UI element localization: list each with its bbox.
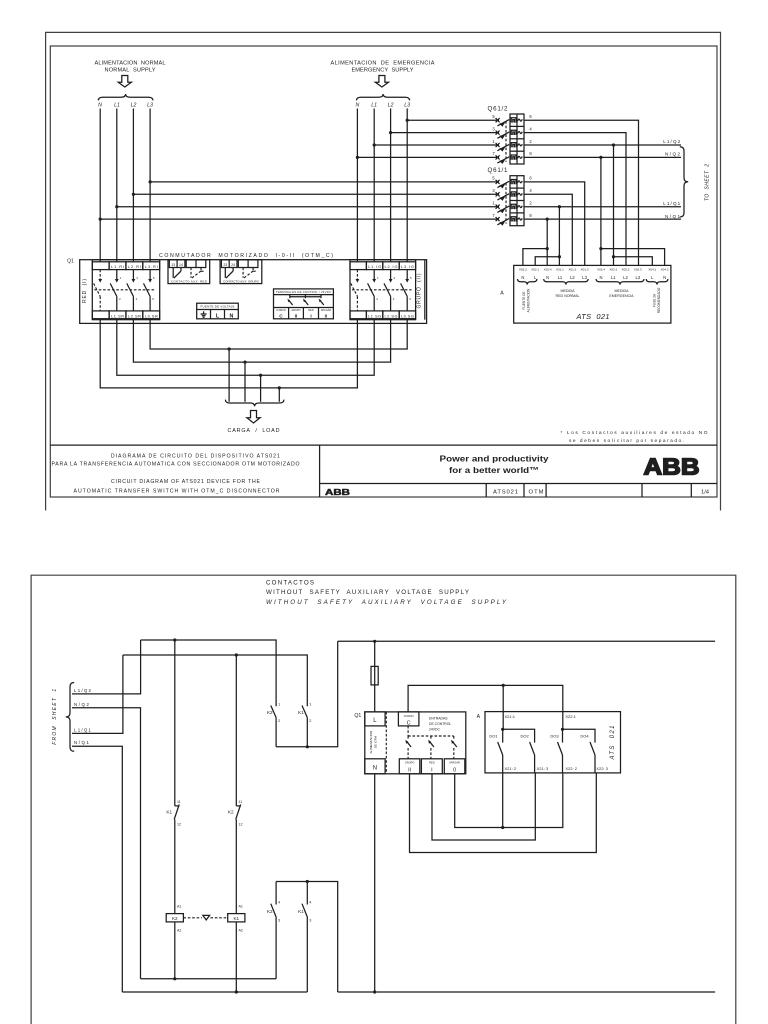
wire C feed common	[408, 685, 563, 712]
svg-text:se deben solicitar por separad: se deben solicitar por separado.	[569, 438, 684, 444]
normal supply brace	[98, 94, 153, 100]
svg-text:DE CONTROL: DE CONTROL	[429, 722, 451, 726]
svg-text:FUSE 2A: FUSE 2A	[652, 293, 656, 307]
wire N.SR to N.SG	[100, 319, 357, 388]
junction coil K1 rail	[235, 990, 238, 993]
load arrow	[247, 411, 260, 424]
title block frame	[50, 445, 717, 497]
svg-text:X01:4: X01:4	[544, 267, 552, 271]
coil K2	[166, 905, 183, 933]
rail N common	[338, 991, 715, 993]
svg-text:X02:1: X02:1	[609, 267, 617, 271]
svg-text:K1: K1	[233, 916, 239, 921]
normal supply arrow	[118, 76, 131, 88]
aux contact block 13-14	[168, 260, 210, 284]
svg-text:ALIMENTACION DE EMERGENCIA: ALIMENTACION DE EMERGENCIA	[331, 61, 435, 67]
svg-text:II: II	[408, 768, 411, 774]
junction L2-Q61/1	[132, 193, 135, 196]
svg-text:L3.IG: L3.IG	[401, 264, 414, 269]
wire Q61/1 pin2 node L1/Q1	[524, 206, 681, 208]
emergency supply label	[331, 61, 435, 74]
svg-text:FUENTE DE: FUENTE DE	[522, 291, 526, 309]
wire bus2 to K2 NC	[235, 655, 237, 806]
wire Q61/2 pin6 to X terminal	[524, 120, 639, 265]
wire Q1 N down	[374, 774, 376, 992]
section divider GRUPO	[424, 260, 426, 320]
normal supply label	[95, 61, 166, 74]
wire N emergency	[356, 109, 358, 262]
wire L2 emergency	[390, 109, 392, 262]
phase labels emergency supply	[356, 103, 411, 109]
svg-text:24VDC: 24VDC	[429, 727, 440, 731]
svg-text:AUTOMATIC TRANSFER SWITCH WITH: AUTOMATIC TRANSFER SWITCH WITH OTM_C DIS…	[74, 489, 280, 495]
junction L3-Q61/2	[406, 119, 409, 122]
svg-text:ENTRADAS: ENTRADAS	[429, 716, 448, 720]
wire L1 to Q61/2 pin1	[374, 144, 499, 146]
wire L1/Q2 feed	[72, 640, 141, 694]
junction jog L1/Q1	[558, 255, 561, 258]
svg-text:L1.SG: L1.SG	[368, 313, 381, 318]
junction L1/Q1 branch	[558, 205, 561, 208]
rail N/Q1	[122, 991, 307, 993]
wire jog N/Q1 to X02:2	[523, 249, 547, 266]
svg-text:RED (I): RED (I)	[82, 279, 88, 303]
svg-text:Q1: Q1	[67, 259, 74, 265]
slogan	[440, 454, 549, 475]
fuse F1	[371, 666, 378, 685]
brace to sheet 2	[680, 147, 688, 217]
wire coil K1 to rail	[235, 922, 237, 992]
svg-text:GRUPO (II): GRUPO (II)	[416, 273, 422, 308]
wire DO3 bus	[563, 729, 596, 742]
junction DO3 bus	[561, 728, 564, 731]
wire N/Q1 branch down	[546, 219, 548, 265]
svg-text:L1: L1	[114, 103, 120, 109]
wire X21:1 drop	[502, 685, 504, 729]
wire aux common rail	[276, 641, 338, 747]
svg-text:L3: L3	[582, 275, 587, 280]
svg-text:N: N	[373, 765, 377, 771]
junction N-Q61/1	[99, 218, 102, 221]
wire L1 to Q61/1 pin1	[117, 206, 499, 208]
svg-text:L2.IG: L2.IG	[385, 264, 398, 269]
load tap L3	[228, 349, 230, 402]
junction Q1 N rail	[373, 990, 376, 993]
svg-text:X02:2: X02:2	[519, 267, 527, 271]
svg-text:CONTACTOS: CONTACTOS	[266, 580, 314, 587]
junction L1/Q2 branch	[612, 143, 615, 146]
terminal block FUENTE DE VOLTAJE	[197, 303, 239, 319]
phase labels normal supply	[98, 103, 153, 109]
svg-text:DIAGRAMA DE CIRCUITO DEL DISPO: DIAGRAMA DE CIRCUITO DEL DISPOSITIVO ATS…	[111, 454, 280, 460]
svg-text:C: C	[279, 314, 283, 320]
wire K2 aux bottom	[275, 718, 277, 747]
junction jog N/Q2	[599, 247, 602, 250]
coil K1	[228, 905, 245, 933]
svg-text:X22:1: X22:1	[565, 714, 576, 719]
wire Q61/1 pin6 to X terminal	[524, 182, 585, 266]
wire L1.SR to L1.SG	[117, 319, 374, 375]
page 2 heading	[266, 580, 507, 606]
svg-text:2: 2	[309, 719, 311, 723]
svg-text:L1: L1	[558, 275, 563, 280]
wire L1/Q1 feed	[72, 655, 123, 733]
wire K2-NO bottom	[275, 917, 277, 979]
wire Q61/2 pin2 node L1/Q2	[524, 144, 681, 146]
svg-text:N: N	[98, 103, 102, 109]
wire jog L1/Q2 to X04:1	[614, 257, 653, 266]
svg-text:A2: A2	[177, 928, 181, 932]
svg-text:FUENTE DE VOLTAJE: FUENTE DE VOLTAJE	[201, 305, 235, 309]
junction N/Q2 branch	[599, 156, 602, 159]
svg-text:L1.IG: L1.IG	[368, 264, 381, 269]
svg-text:1: 1	[278, 703, 280, 707]
svg-text:DE OTM: DE OTM	[374, 736, 378, 748]
svg-text:L1.RI: L1.RI	[111, 264, 124, 269]
svg-text:N: N	[599, 275, 602, 280]
contact K2 aux 1-2	[267, 703, 280, 724]
wire L2 to Q61/2 pin3	[391, 132, 499, 134]
junction fuse tap	[373, 640, 376, 643]
svg-text:X21: 3: X21: 3	[537, 766, 549, 771]
title text spanish	[52, 454, 300, 468]
wire K1 NC to coil K2	[174, 819, 176, 913]
wire N/Q2 feed	[72, 708, 141, 979]
svg-text:X21:1: X21:1	[505, 714, 516, 719]
svg-text:COMUN: COMUN	[276, 309, 286, 312]
svg-text:ATS 021: ATS 021	[576, 312, 610, 321]
svg-text:ALIMENTACION: ALIMENTACION	[527, 288, 531, 312]
junction load L2	[243, 361, 246, 364]
emergency supply brace	[357, 94, 410, 100]
svg-text:MEDIDA: MEDIDA	[561, 289, 576, 293]
junction DO1 bus	[501, 728, 504, 731]
wire L2 to Q61/1 pin3	[133, 193, 499, 195]
wire coil K2 to rail	[174, 922, 176, 979]
svg-text:ALIMENTACION: ALIMENTACION	[369, 731, 373, 754]
page 1 sheet outer border	[46, 32, 721, 510]
svg-text:K2: K2	[172, 916, 178, 921]
svg-text:L1: L1	[611, 275, 616, 280]
doc number	[493, 490, 544, 496]
svg-text:L3: L3	[404, 103, 410, 109]
wire K2-NO top	[275, 882, 277, 905]
svg-text:N/Q2: N/Q2	[665, 152, 680, 157]
controller A ATS021 p2	[485, 712, 621, 773]
wire L3 normal	[149, 109, 151, 262]
svg-text:L2: L2	[388, 103, 394, 109]
svg-text:L2.RI: L2.RI	[128, 264, 141, 269]
svg-text:RED: RED	[429, 761, 435, 765]
aux contact block 23-24	[220, 260, 262, 284]
wire X21:3 to input I	[432, 773, 535, 840]
svg-text:24: 24	[231, 263, 235, 267]
wire Q61/2 pin4 to X terminal	[524, 133, 626, 266]
svg-text:CONTACTO AUX. GRUPO: CONTACTO AUX. GRUPO	[223, 279, 260, 283]
svg-text:K2: K2	[228, 809, 234, 814]
wire L1 emergency	[373, 109, 375, 262]
svg-text:Q61/1: Q61/1	[488, 167, 509, 174]
contact DO2	[530, 742, 535, 773]
svg-text:MEDIDA: MEDIDA	[615, 289, 630, 293]
emergency supply arrow	[375, 76, 388, 88]
switch Q1 outer box	[80, 260, 427, 324]
junction jog N/Q1	[546, 247, 549, 250]
wire Q61/2 pin8 node N/Q2	[524, 156, 681, 158]
svg-text:Q61/2: Q61/2	[488, 105, 509, 112]
wire X22:1 drop	[562, 712, 564, 730]
rail N/Q2	[141, 978, 277, 980]
svg-text:L1: L1	[371, 103, 377, 109]
contact K1 NO 4-3	[298, 901, 311, 923]
wire N/Q1 feed	[72, 746, 122, 992]
svg-text:DO4: DO4	[580, 734, 589, 739]
wire K1 aux bottom	[306, 718, 308, 747]
svg-text:K1: K1	[298, 909, 304, 914]
page 2 sheet border	[31, 575, 736, 1024]
svg-text:RED NORMAL: RED NORMAL	[556, 294, 580, 298]
junction jog L1/Q2	[612, 255, 615, 258]
svg-text:X02:4: X02:4	[597, 267, 605, 271]
wire L2.SR to L2.SG	[133, 319, 390, 362]
svg-text:TERMINALES DE CONTROL / 24VDC: TERMINALES DE CONTROL / 24VDC	[276, 290, 331, 294]
junction L3-Q61/1	[149, 180, 152, 183]
wire DO1 out	[502, 773, 504, 828]
svg-text:ABB: ABB	[325, 488, 350, 497]
wire L3 to Q61/1 pin5	[150, 181, 499, 183]
svg-text:12: 12	[177, 822, 181, 826]
terminal block TERMINALES DE CONTROL	[274, 289, 334, 320]
svg-text:GRUPO: GRUPO	[291, 309, 300, 312]
contact K1 aux 1-2	[298, 703, 311, 724]
svg-text:A: A	[500, 291, 504, 297]
wire bus1 to K1 NC	[174, 640, 176, 806]
svg-text:A: A	[477, 714, 481, 720]
svg-text:PARA LA TRANSFERENCIA AUTOMATI: PARA LA TRANSFERENCIA AUTOMATICA CON SEC…	[52, 462, 300, 468]
svg-text:X02:2: X02:2	[622, 267, 630, 271]
svg-text:K1: K1	[298, 710, 304, 715]
wire L1/Q1 branch down	[558, 207, 560, 266]
contact DO4	[590, 742, 595, 773]
wire L3 to Q61/2 pin5	[407, 119, 499, 121]
svg-text:L2: L2	[623, 275, 628, 280]
svg-text:Q1: Q1	[354, 713, 361, 719]
junction L1-Q61/1	[115, 205, 118, 208]
wire L1 normal	[116, 109, 118, 262]
svg-text:11: 11	[239, 800, 243, 804]
svg-text:K2: K2	[267, 710, 273, 715]
svg-text:GRUPO: GRUPO	[405, 761, 415, 765]
junction L2-Q61/2	[389, 131, 392, 134]
junction load L3	[228, 347, 231, 350]
bus L1/Q2 top	[141, 640, 277, 706]
wire X22:3 to input II	[410, 773, 597, 853]
wire N/Q2 branch down	[600, 157, 602, 265]
svg-text:ATS 021: ATS 021	[610, 726, 616, 761]
svg-text:0: 0	[453, 768, 456, 774]
svg-text:CIRCUIT DIAGRAM OF ATS021 DEVI: CIRCUIT DIAGRAM OF ATS021 DEVICE FOR THE	[111, 479, 261, 485]
bus L1/Q1 mid	[123, 655, 307, 706]
svg-text:I: I	[431, 768, 433, 774]
svg-text:DO3: DO3	[550, 734, 559, 739]
svg-text:X01:1: X01:1	[556, 267, 564, 271]
svg-text:L3.SR: L3.SR	[145, 313, 158, 318]
brace from sheet 1	[66, 683, 74, 752]
svg-text:4: 4	[309, 901, 311, 905]
svg-text:X01:3: X01:3	[581, 267, 589, 271]
svg-text:X01:2: X01:2	[568, 267, 576, 271]
wire L3 emergency	[406, 109, 408, 262]
svg-text:NORMAL SUPPLY: NORMAL SUPPLY	[105, 68, 156, 74]
svg-text:COMUN: COMUN	[404, 714, 414, 718]
wire K-NO common rail	[276, 882, 338, 993]
svg-text:N: N	[356, 103, 360, 109]
svg-text:K1: K1	[166, 809, 172, 814]
switch section RED (I)	[92, 260, 159, 320]
junction DO1 out	[501, 826, 504, 829]
svg-text:3: 3	[309, 919, 311, 923]
wire K2 NC to coil K1	[235, 819, 237, 913]
wire N to Q61/1 pin7	[100, 218, 499, 220]
svg-text:N: N	[546, 275, 549, 280]
wire K1-NO bottom	[306, 917, 308, 992]
bus top right	[338, 640, 715, 642]
svg-text:Power and productivity: Power and productivity	[440, 454, 549, 464]
svg-text:A1: A1	[177, 905, 181, 909]
svg-text:4: 4	[278, 901, 280, 905]
svg-text:L2: L2	[131, 103, 137, 109]
svg-text:A2: A2	[239, 928, 243, 932]
mechanical interlock	[183, 915, 227, 920]
circuit breaker Q61/1	[488, 167, 533, 226]
svg-text:1: 1	[309, 703, 311, 707]
wire fuse drop	[374, 641, 376, 712]
svg-text:OTM: OTM	[529, 490, 544, 496]
svg-text:2: 2	[278, 719, 280, 723]
svg-text:1/4: 1/4	[701, 490, 710, 496]
wire K1-NO top	[306, 882, 308, 905]
note contacts	[561, 430, 708, 444]
svg-text:ATS021: ATS021	[493, 490, 518, 496]
wire X21:2/X22:2 to input 0	[455, 773, 563, 828]
contact K2 NC 11-12	[228, 800, 243, 827]
title text english	[74, 479, 280, 495]
controller Q1 OTM interface	[365, 712, 466, 774]
svg-text:CONTACTO AUX. RED: CONTACTO AUX. RED	[171, 279, 208, 283]
switch section GRUPO (II)	[350, 260, 416, 320]
svg-text:N/Q2: N/Q2	[74, 702, 90, 707]
junction X21:1 common	[502, 684, 505, 687]
svg-text:WITHOUT SAFETY AUXILIARY VO: WITHOUT SAFETY AUXILIARY VOLTAGE SUPPLY	[266, 589, 469, 596]
svg-text:EMERGENCY SUPPLY: EMERGENCY SUPPLY	[352, 68, 414, 74]
circuit breaker Q61/2	[488, 105, 533, 164]
svg-text:A1: A1	[239, 905, 243, 909]
svg-text:X02:3: X02:3	[634, 267, 642, 271]
contact DO1	[498, 729, 503, 773]
svg-text:N: N	[229, 313, 233, 319]
junction L1-Q61/2	[373, 143, 376, 146]
svg-text:FROM SHEET 1: FROM SHEET 1	[52, 689, 58, 745]
svg-text:X22: 2: X22: 2	[565, 766, 577, 771]
wire jog N/Q2 to X04:2	[601, 249, 665, 266]
controller U-A ATS021	[514, 265, 671, 323]
junction K1 aux rail	[306, 745, 309, 748]
svg-text:12: 12	[239, 822, 243, 826]
svg-text:N/Q1: N/Q1	[665, 214, 680, 219]
svg-text:X02:1: X02:1	[531, 267, 539, 271]
page 1 sheet inner border	[50, 46, 717, 497]
wire L2 normal	[132, 109, 134, 262]
svg-text:N: N	[663, 275, 666, 280]
load tap L2	[244, 362, 246, 402]
junction bus1 K1-NC branch	[173, 638, 176, 641]
junction load L1	[259, 374, 262, 377]
svg-text:DO2: DO2	[520, 734, 529, 739]
svg-text:L2.SR: L2.SR	[128, 313, 141, 318]
wire Q61/1 pin8 node N/Q1	[524, 218, 681, 220]
wire N to Q61/2 pin7	[357, 156, 499, 158]
svg-text:11: 11	[177, 800, 181, 804]
svg-text:EMERGENCIA: EMERGENCIA	[609, 294, 634, 298]
svg-text:RED: RED	[308, 309, 313, 312]
svg-text:DO1: DO1	[489, 734, 498, 739]
load tap L1	[260, 375, 262, 402]
contact K1 NC 11-12	[166, 800, 181, 827]
load tap N	[278, 388, 280, 402]
svg-text:APAGAR: APAGAR	[321, 309, 331, 312]
junction N-Q61/2	[356, 156, 359, 159]
wire jog L1/Q1 to X02:1	[535, 257, 559, 266]
contact DO3	[558, 729, 563, 773]
svg-text:L3.RI: L3.RI	[145, 264, 158, 269]
junction N/Q1 branch	[546, 218, 549, 221]
svg-text:X04:2: X04:2	[661, 267, 669, 271]
svg-text:X04:1: X04:1	[648, 267, 656, 271]
svg-text:N/Q1: N/Q1	[74, 740, 90, 745]
svg-text:L2: L2	[570, 275, 575, 280]
wire DO1 bus	[503, 729, 535, 742]
junction coil K2 rail	[173, 977, 176, 980]
svg-text:0: 0	[325, 314, 328, 320]
svg-text:L3.SG: L3.SG	[401, 313, 414, 318]
junction bus2 K2-NC branch	[235, 653, 238, 656]
load brace	[225, 400, 284, 407]
svg-text:13: 13	[171, 263, 175, 267]
junction load N	[278, 386, 281, 389]
svg-text:K2: K2	[267, 909, 273, 914]
svg-text:L3: L3	[147, 103, 153, 109]
junction K1-NO rail	[306, 880, 309, 883]
wire L3.SR to L3.SG	[150, 319, 407, 349]
svg-text:L2.SG: L2.SG	[385, 313, 398, 318]
svg-text:3: 3	[278, 919, 280, 923]
svg-text:APAGAR: APAGAR	[449, 761, 460, 765]
wire L1/Q2 branch down	[613, 145, 615, 265]
svg-text:23: 23	[223, 263, 227, 267]
svg-text:L3: L3	[635, 275, 640, 280]
svg-text:TO SHEET 2: TO SHEET 2	[705, 164, 711, 201]
wire Q61/1 pin4 to X terminal	[524, 194, 572, 265]
contact K2 NO 4-3	[267, 901, 280, 923]
svg-text:14: 14	[179, 263, 183, 267]
svg-text:RECOMENDADO: RECOMENDADO	[657, 287, 661, 313]
svg-text:X21: 2: X21: 2	[505, 766, 517, 771]
wire N normal	[99, 109, 101, 262]
svg-text:CARGA / LOAD: CARGA / LOAD	[228, 428, 280, 434]
svg-text:C: C	[407, 721, 411, 727]
svg-text:ALIMENTACION NORMAL: ALIMENTACION NORMAL	[95, 61, 166, 67]
svg-text:for a better world™: for a better world™	[449, 465, 539, 475]
